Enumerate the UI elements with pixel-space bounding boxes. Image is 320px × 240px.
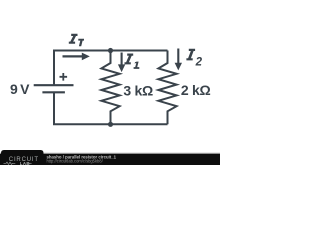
- svg-text:http://circuitlab.com/c/sbg5kb: http://circuitlab.com/c/sbg5kb8/: [47, 158, 104, 163]
- svg-text:LAB: LAB: [20, 161, 30, 165]
- watermark bar (black strip): [0, 153, 220, 165]
- svg-text:9 V: 9 V: [10, 81, 30, 97]
- battery V1 plus sign: [60, 73, 68, 81]
- battery V1 bottom plate (-): [42, 91, 65, 93]
- wire from battery + terminal up and right to node A: [54, 51, 111, 85]
- current label I_2: [186, 49, 202, 69]
- wire from node B left and up to battery - terminal: [54, 93, 111, 124]
- CircuitLab logo wordmark CIRCUIT: [9, 157, 39, 163]
- resistor R1 value label 3 kOhm: [123, 82, 153, 98]
- CircuitLab logo resistor squiggle and LAB: [4, 161, 32, 166]
- wire from node A right to R2 top: [111, 50, 168, 52]
- current arrow I_2 (through R2, pointing down): [175, 49, 182, 71]
- resistor R2 value label 2 kOhm: [181, 82, 211, 98]
- CircuitLab logo badge: [1, 150, 44, 165]
- svg-text:2 kΩ: 2 kΩ: [181, 82, 211, 98]
- resistor R1 (3 kOhm branch, zigzag with leads): [101, 51, 119, 125]
- wire from R2 bottom left to node B: [111, 123, 168, 125]
- current label I_1: [125, 54, 140, 69]
- node A junction dot (top): [108, 48, 113, 53]
- node B junction dot (bottom): [108, 122, 113, 127]
- battery V1 top plate (+): [34, 84, 74, 86]
- battery value label 9 V: [10, 81, 30, 97]
- svg-text:3 kΩ: 3 kΩ: [123, 82, 153, 98]
- current label I_T: [69, 34, 84, 47]
- current arrow I_1 (through R1, pointing down): [118, 53, 125, 73]
- svg-text:2: 2: [195, 56, 203, 68]
- watermark text line 2: circuit url: [47, 158, 104, 163]
- watermark text line 1: author / circuit name: [47, 154, 117, 159]
- resistor R2 (2 kOhm branch, zigzag with leads): [158, 51, 176, 125]
- current arrow I_T (total current, pointing right): [63, 53, 90, 61]
